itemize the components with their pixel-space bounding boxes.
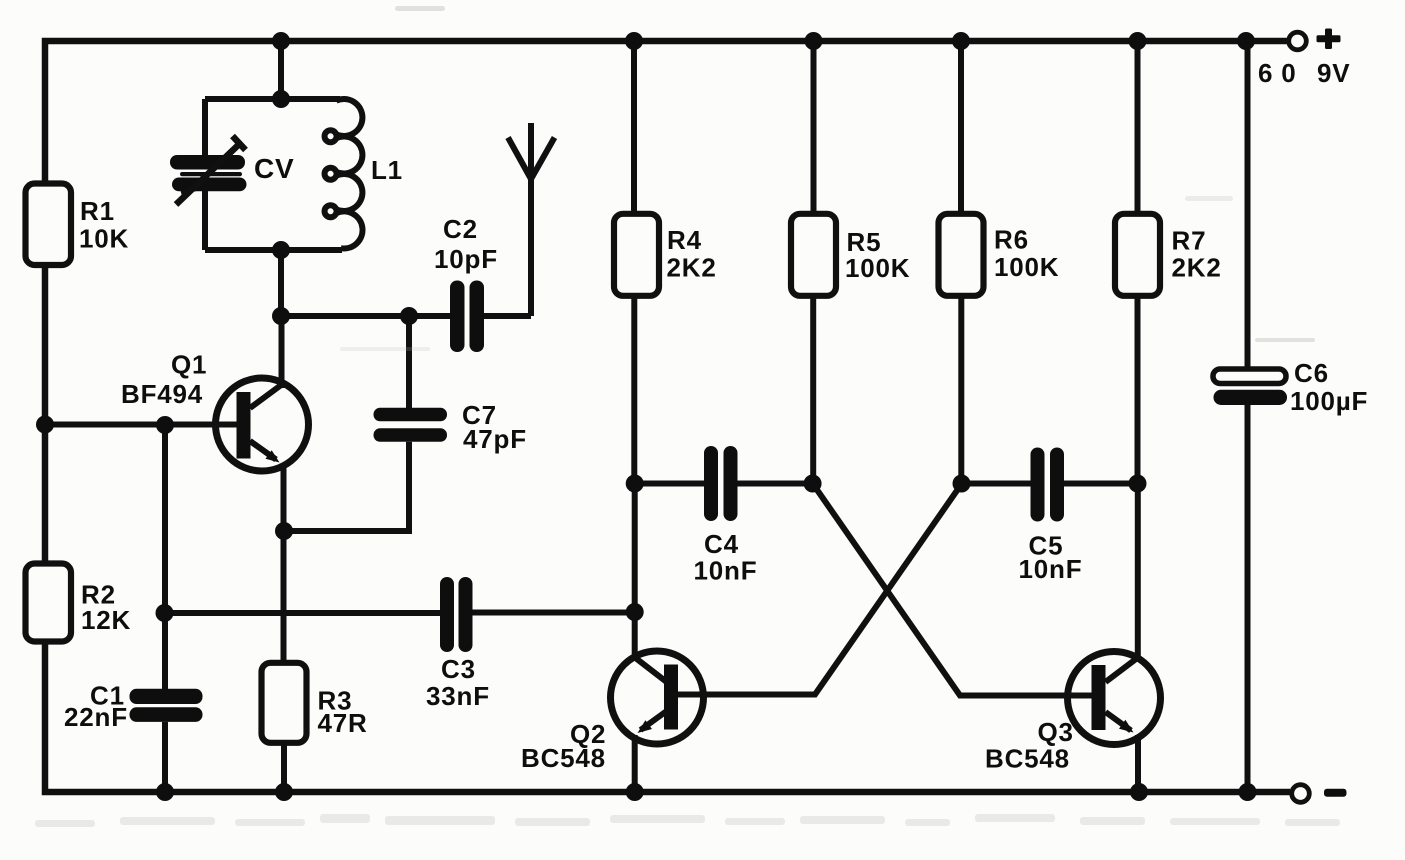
svg-text:C3: C3 — [441, 654, 476, 684]
wire C5 left — [962, 481, 1031, 487]
svg-text:100µF: 100µF — [1290, 386, 1368, 416]
wire R7 from top rail — [1135, 41, 1141, 214]
resistor R7 body — [1115, 214, 1160, 296]
transistor Q3 emitter arrowhead — [1119, 720, 1134, 733]
scan artifact: faint smudges — [340, 6, 1315, 351]
wire C1 bottom to ground rail — [162, 722, 168, 792]
wire C6 bottom to ground rail — [1245, 405, 1251, 792]
svg-text:BF494: BF494 — [121, 379, 203, 409]
node base / C1 branch — [156, 416, 174, 434]
svg-text:Q1: Q1 — [171, 350, 207, 380]
inductor L1 coil — [325, 99, 363, 248]
transistor Q3 emitter diagonal — [1106, 712, 1132, 731]
wire tank top side — [205, 96, 340, 102]
wire base node vertical down to C1 — [162, 425, 168, 689]
svg-text:BC548: BC548 — [521, 743, 606, 773]
wire R5 to C4 node — [810, 296, 816, 484]
node Q2 collector / C4 — [626, 475, 644, 493]
svg-text:10nF: 10nF — [1019, 554, 1083, 584]
svg-text:C6: C6 — [1294, 358, 1329, 388]
transistor Q2 base bar — [664, 665, 678, 730]
svg-text:C2: C2 — [443, 214, 478, 244]
transistor Q3 base bar — [1092, 665, 1106, 730]
capacitor C5 plates — [1031, 448, 1065, 522]
node ground rail / R3 — [275, 783, 293, 801]
wire collector node horizontal to C2 — [281, 313, 450, 319]
capacitor C1 plates — [130, 689, 203, 722]
capacitor C6 electrolytic top plate (outlined) — [1213, 369, 1286, 384]
node ground rail / Q3 emitter — [1130, 783, 1148, 801]
node emitter / C7 — [275, 522, 293, 540]
scan artifact: ghost text band along bottom edge — [35, 814, 1340, 827]
wire C3 to Q2 collector line — [473, 610, 635, 616]
svg-text:2K2: 2K2 — [1172, 253, 1222, 283]
transistor Q3 circle — [1068, 652, 1161, 745]
wire tank bottom to collector node — [278, 250, 284, 316]
svg-text:47pF: 47pF — [463, 424, 527, 454]
wire R3 to ground rail — [281, 743, 287, 792]
wire tank left side lower (from CV) — [202, 190, 208, 250]
svg-text:6 0: 6 0 — [1258, 58, 1297, 88]
wire Q2 emitter to ground rail — [632, 735, 638, 792]
svg-text:2K2: 2K2 — [667, 253, 717, 283]
transistor Q1 collector diagonal — [250, 384, 283, 408]
svg-text:BC548: BC548 — [985, 744, 1070, 774]
transistor Q1 emitter diagonal — [250, 441, 276, 460]
wire Q3 emitter to ground rail — [1135, 735, 1141, 792]
antenna — [528, 178, 534, 316]
svg-text:10pF: 10pF — [434, 244, 498, 274]
node top rail / tank — [272, 32, 290, 50]
wire tank left side upper (to CV) — [202, 99, 208, 158]
wire C7 bottom to emitter node — [284, 442, 409, 531]
wire Q3 collector vertical — [1135, 484, 1141, 658]
wire C2 to antenna — [484, 313, 531, 319]
wire R5 from top rail — [811, 41, 817, 214]
transistor Q1 circle — [216, 378, 309, 471]
node top rail / R6 — [952, 32, 970, 50]
node C1 / C3 audio — [156, 604, 174, 622]
wire tank bottom side — [205, 247, 342, 253]
capacitor C3 plates — [440, 577, 473, 652]
wire C6 branch from top rail — [1245, 41, 1251, 369]
svg-text:10nF: 10nF — [694, 556, 758, 586]
svg-text:10K: 10K — [79, 224, 129, 254]
transistor Q2 collector diagonal — [635, 658, 666, 682]
node R6 / C5 — [953, 475, 971, 493]
svg-text:100K: 100K — [994, 252, 1059, 282]
wire R4 to C4 node — [631, 296, 637, 484]
svg-text:12K: 12K — [81, 605, 131, 635]
capacitor C4 plates — [704, 446, 738, 521]
wire cross-coupling R5/C4 node to Q3 base — [813, 484, 1092, 696]
minus sign — [1324, 789, 1347, 797]
node top rail / C6 — [1237, 32, 1255, 50]
wire audio line from C1 node to C3 — [165, 610, 440, 616]
node tank bottom — [272, 241, 290, 259]
transistor Q3 collector diagonal — [1106, 658, 1138, 682]
terminal - (negative supply) — [1292, 785, 1310, 803]
resistor R2 body — [26, 564, 72, 642]
wire C7 branch vertical from collector node — [406, 316, 412, 408]
resistor R1 body — [26, 184, 72, 266]
transistor Q1 base bar — [237, 392, 251, 459]
wire R4 from top rail — [631, 41, 637, 214]
wire C4 left — [635, 481, 704, 487]
wire C4 right — [738, 481, 813, 487]
resistor R4 body — [614, 214, 659, 296]
terminal + (positive supply) — [1289, 32, 1307, 50]
transistor Q1 emitter arrowhead — [266, 450, 280, 462]
capacitor C7 plates — [374, 408, 448, 442]
capacitor C6 electrolytic bottom plate (solid) — [1214, 390, 1288, 405]
capacitor CV (variable, trimmer) — [170, 155, 247, 191]
resistor R5 body — [791, 214, 836, 296]
wire top supply rail and left rail and bottom rail — [45, 41, 1290, 792]
node top rail / R7 — [1129, 32, 1147, 50]
node top rail / R5 — [805, 32, 823, 50]
node left rail / base divider — [36, 416, 54, 434]
node ground rail / C1 — [156, 783, 174, 801]
svg-text:100K: 100K — [845, 253, 910, 283]
wire R6 from top rail — [958, 41, 964, 214]
svg-text:R4: R4 — [667, 225, 702, 255]
svg-text:9V: 9V — [1317, 58, 1350, 88]
wire Q1 emitter down through R3 — [281, 464, 287, 663]
node Q2 collector / C3 — [626, 603, 644, 621]
wire Q1 collector vertical — [279, 316, 285, 388]
wire cross-coupling R6/C5 node to Q2 base — [678, 484, 962, 695]
wire Q2 collector vertical — [632, 484, 638, 658]
plus sign — [1317, 29, 1341, 50]
transistor Q2 emitter arrowhead — [638, 720, 653, 733]
node ground rail / Q2 emitter — [626, 783, 644, 801]
node collector junction — [272, 307, 290, 325]
node R5 / C4 — [804, 475, 822, 493]
svg-text:R7: R7 — [1172, 226, 1207, 256]
svg-text:22nF: 22nF — [64, 702, 128, 732]
wire R7 to C5 node — [1135, 296, 1141, 484]
resistor R3 body — [262, 663, 307, 743]
transistor Q2 emitter diagonal — [641, 712, 667, 731]
resistor R6 body — [939, 214, 984, 296]
svg-text:R6: R6 — [994, 225, 1029, 255]
transistor Q2 circle — [611, 651, 704, 744]
wire C5 right — [1064, 481, 1138, 487]
svg-text:47R: 47R — [318, 708, 368, 738]
svg-text:Q3: Q3 — [1038, 717, 1074, 747]
node C7 tap — [400, 307, 418, 325]
svg-text:C4: C4 — [704, 529, 739, 559]
node top rail / R4 — [625, 32, 643, 50]
node tank top — [272, 90, 290, 108]
capacitor C2 plates — [450, 281, 484, 353]
wire R6 to C5 node — [958, 296, 964, 484]
svg-text:L1: L1 — [371, 155, 403, 185]
svg-text:CV: CV — [254, 153, 295, 184]
svg-text:R1: R1 — [80, 196, 115, 226]
node R7 / C5 — [1129, 475, 1147, 493]
node ground rail / C6 — [1239, 783, 1257, 801]
capacitor CV adjust arrow — [176, 144, 239, 204]
svg-text:33nF: 33nF — [426, 681, 490, 711]
wire tank feed from top rail — [278, 41, 284, 99]
wire Q1 base from left rail — [45, 422, 237, 428]
